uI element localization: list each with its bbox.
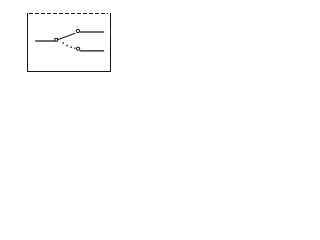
symbol boundary box: right edge <box>110 13 112 72</box>
symbol boundary box: left edge <box>27 13 29 72</box>
switch SW pole contact circle <box>55 38 58 41</box>
alternate throw position (dotted line) <box>63 42 76 49</box>
lower throw contact circle <box>77 47 80 50</box>
wire: lower throw pin, right <box>80 50 105 52</box>
switch actuator arm <box>57 33 75 40</box>
wire: pole (common) pin, left <box>35 40 55 42</box>
upper throw contact circle <box>76 29 79 32</box>
symbol boundary box: bottom edge <box>27 71 111 73</box>
symbol boundary box: dashed top edge <box>29 13 108 15</box>
wire: upper throw pin, right <box>80 31 104 33</box>
